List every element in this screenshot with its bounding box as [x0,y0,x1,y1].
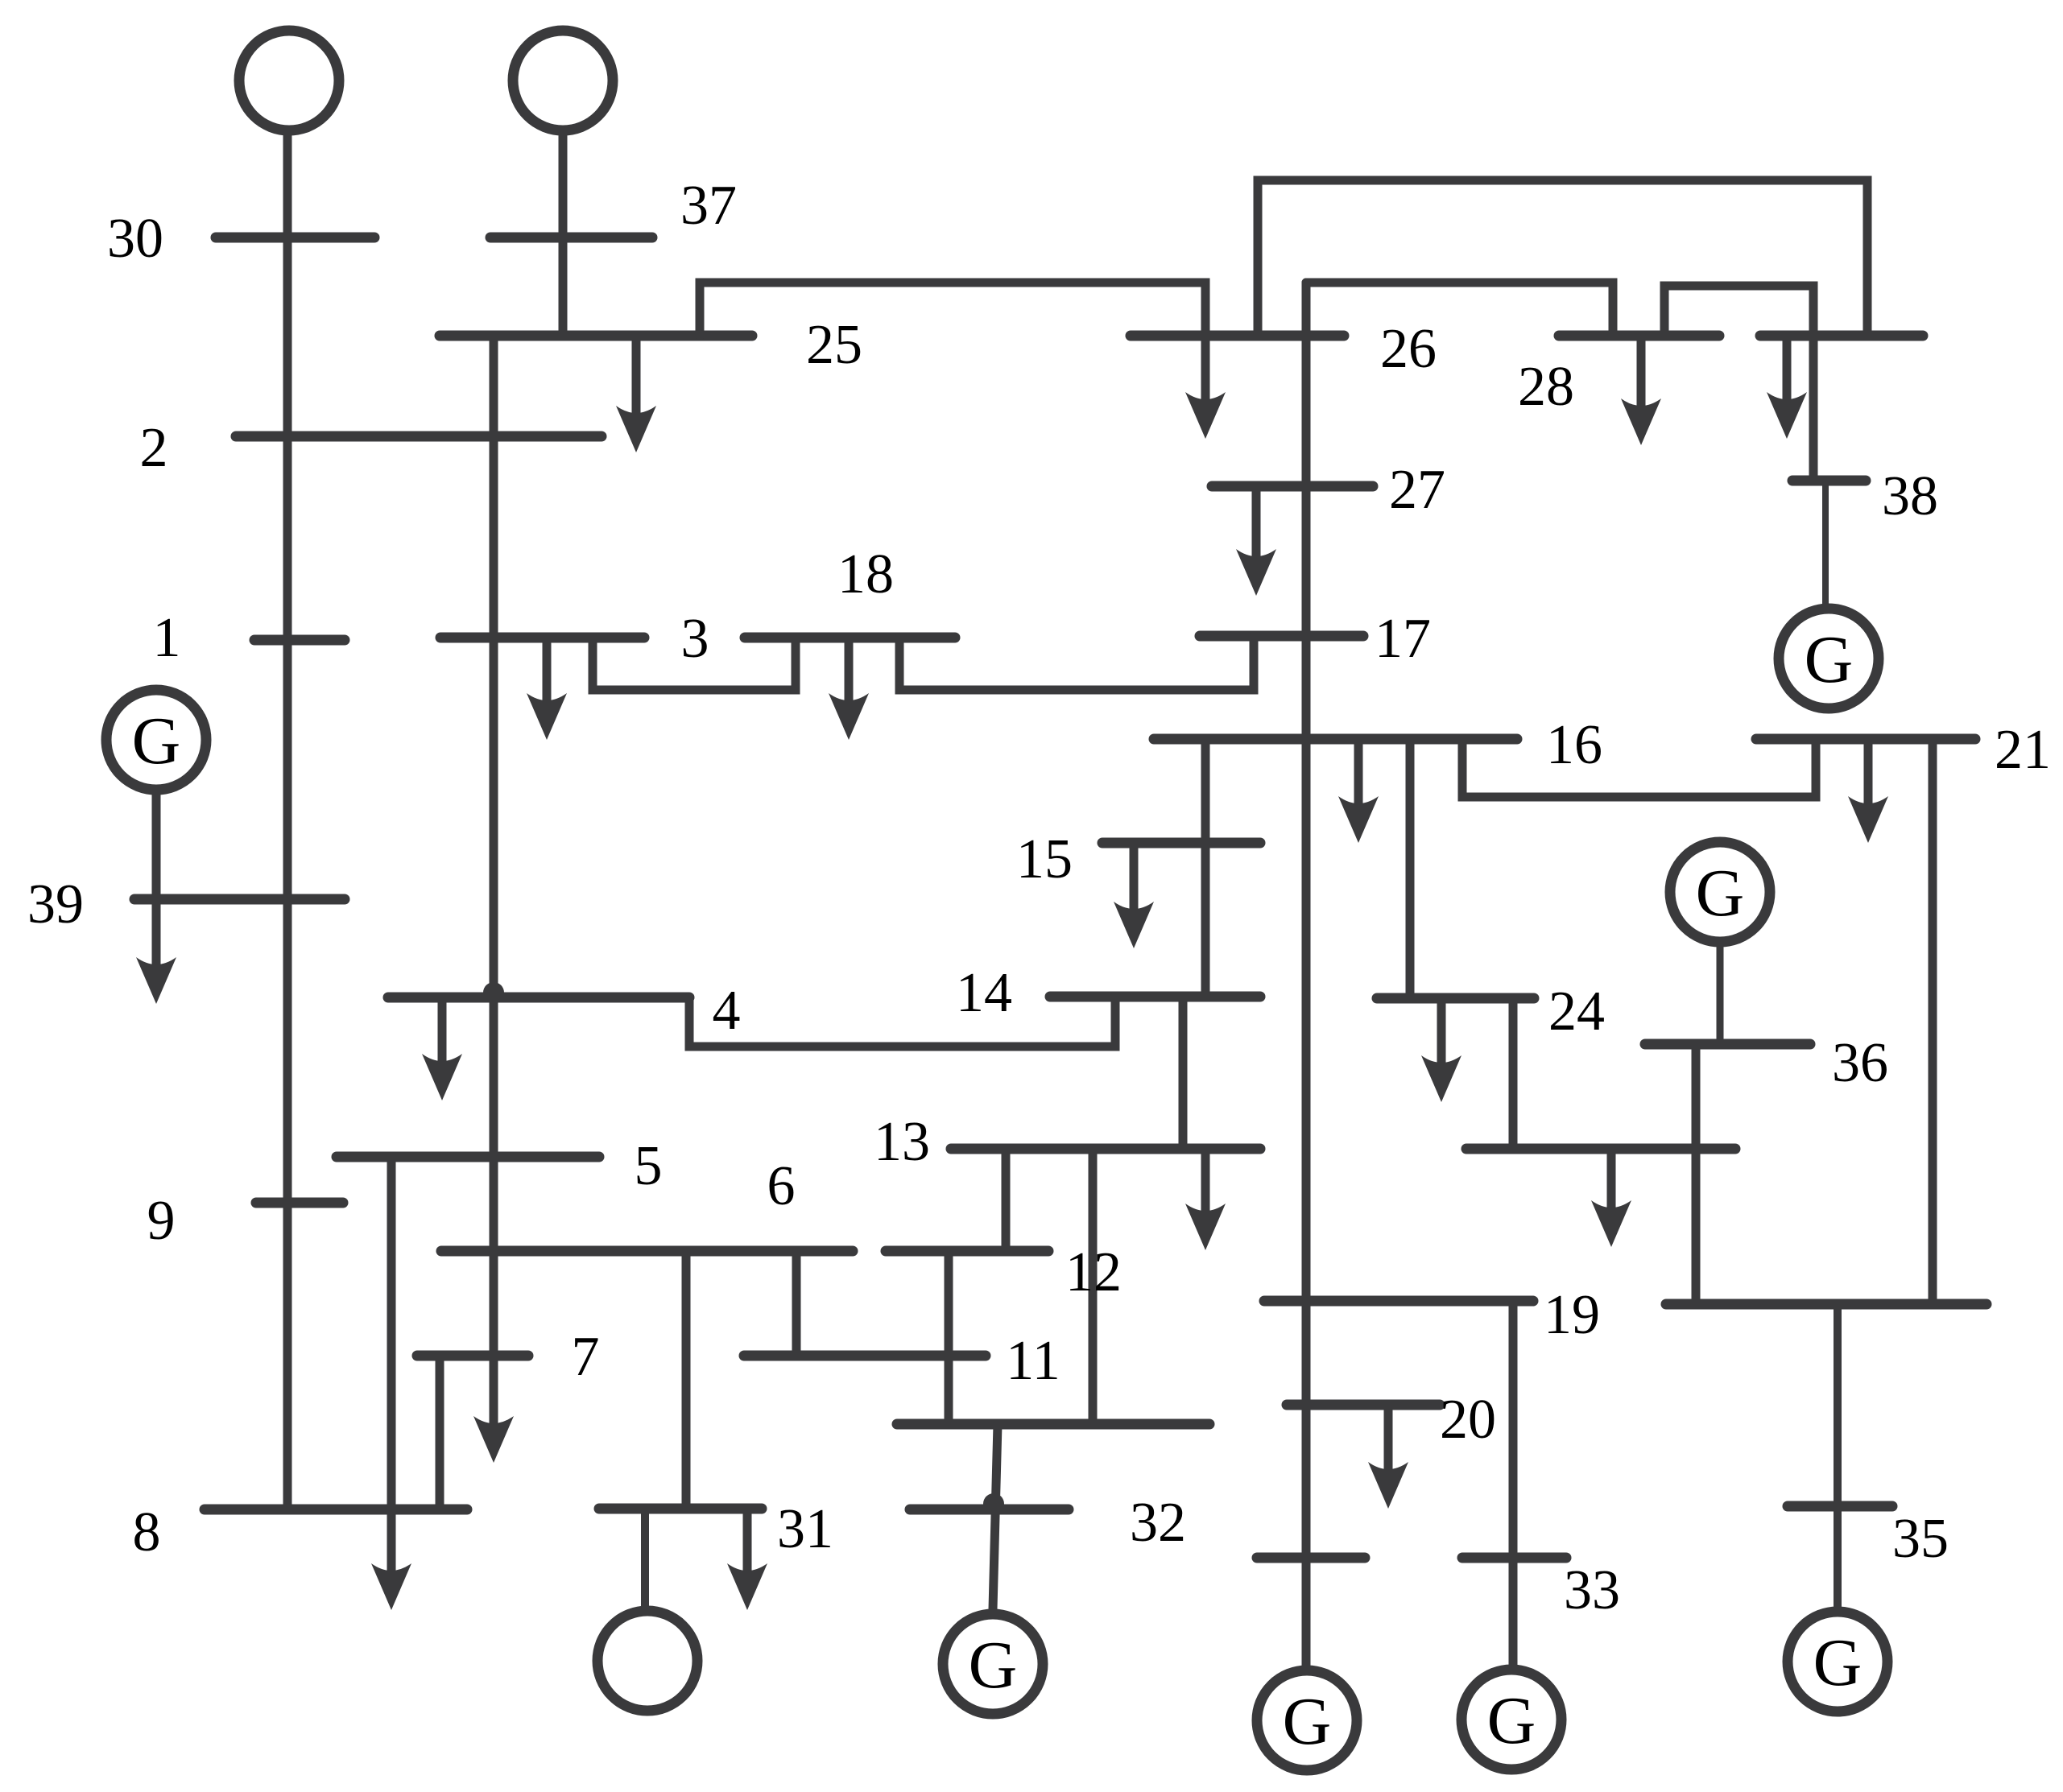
bus 2 [236,431,602,442]
svg-text:8: 8 [133,1501,161,1563]
wire: line 10-32 to generator 32 [993,1424,998,1609]
svg-text:38: 38 [1882,465,1938,527]
wire: vertical from bus 25 through buses 2,3,4,5,6,7 ending in load arrow below bus 7 [490,336,498,1434]
svg-text:28: 28 [1518,356,1574,418]
wire: stem bus 38 to generator 38 [1822,481,1829,605]
svg-text:G: G [1805,622,1854,697]
bus 23 [1466,1144,1735,1154]
bus 14 [1050,992,1260,1002]
wire: line 16-24 [1406,739,1415,998]
svg-text:7: 7 [572,1326,600,1388]
bus 18 [745,633,955,643]
bus 15 [1102,838,1260,849]
bus 3 [440,633,644,643]
wire: jog line 18-17 [899,636,1254,690]
svg-text:12: 12 [1065,1241,1122,1303]
svg-text:30: 30 [107,208,163,270]
load arrow at bus 24 [1437,998,1446,1073]
load arrow at bus 26 [1201,336,1210,410]
wire: line 24-23 [1509,998,1518,1149]
bus 11 [744,1351,986,1361]
wire: line 7-8 [436,1356,444,1509]
bus 21 [1756,734,1975,745]
svg-text:21: 21 [1995,719,2051,781]
svg-text:G: G [1283,1684,1332,1759]
svg-text:18: 18 [837,543,894,605]
svg-text:3: 3 [681,608,709,670]
svg-text:6: 6 [767,1155,796,1217]
generator G34 [1257,1670,1357,1770]
svg-text:25: 25 [806,314,862,376]
junction dot on bus 32 [983,1493,1004,1514]
bus 32 [910,1505,1069,1515]
bus 36 [1645,1039,1810,1050]
wire: line 19-33 to generator 33 [1509,1301,1518,1666]
load arrow at bus 4 [438,997,447,1071]
load arrow at bus 21 [1864,739,1873,814]
svg-text:G: G [1487,1683,1536,1758]
generator G38 [1779,609,1879,708]
wire: line 4-14 (down, across, up) [689,997,1115,1047]
wire: line 14-13 [1179,997,1188,1149]
wire: line 21-22 [1929,739,1937,1304]
wire: stem generator to bus 39 and load arrow below [152,793,161,975]
load arrow at bus 27 [1252,486,1261,567]
bus 6 [441,1246,853,1257]
wire: stem bus 31 to generator 31 [641,1509,649,1607]
svg-text:39: 39 [27,873,84,935]
wire: line 25-26 (up step, across, down to bus 26) [700,283,1205,336]
load arrow at bus 3 [543,638,552,711]
load arrow at bus 13 [1201,1149,1210,1221]
load arrow at bus 20 [1384,1405,1393,1480]
wire: line 6-31 [682,1251,691,1509]
junction dot on bus 4 [483,982,504,1003]
bus 17 [1200,631,1363,642]
bus 12 [886,1246,1048,1257]
wire: line 5-8 with load arrow below bus 8 [387,1157,396,1581]
bus 8 [205,1505,467,1515]
bus 13 [951,1144,1260,1154]
generator G32 [943,1614,1043,1714]
load arrow at bus 23 [1607,1149,1616,1218]
svg-text:36: 36 [1832,1032,1888,1094]
generator G36 [1670,842,1770,942]
svg-text:24: 24 [1548,981,1605,1043]
svg-text:5: 5 [635,1135,663,1197]
wire: vertical from second generator to bus 25 [559,134,568,336]
load arrow at bus 15 [1130,843,1139,919]
svg-text:31: 31 [777,1498,833,1560]
svg-text:G: G [1813,1625,1862,1700]
svg-text:G: G [132,704,181,778]
svg-text:35: 35 [1892,1508,1949,1570]
bus 34 [1257,1553,1365,1563]
wire: line 36-23-22 [1692,1044,1701,1304]
wire: jog line 16-21 [1462,739,1816,797]
svg-text:20: 20 [1440,1389,1496,1451]
generator circle (machine for bus 37) [513,31,613,130]
wire: line 13-10 [1089,1149,1098,1424]
wire: top bridge line 26-29 [1258,180,1867,336]
load arrow at bus 31 [743,1509,752,1581]
generator G33 [1461,1670,1561,1769]
load arrow at bus 29 [1783,336,1792,410]
generator circle 31 [597,1611,697,1711]
wire: line 6-11 [792,1251,801,1356]
wire: vertical 16 through 15 to 14 [1201,739,1210,995]
svg-text:13: 13 [874,1111,930,1173]
svg-text:16: 16 [1546,714,1602,776]
wire: line 13-12 [1002,1149,1011,1251]
bus 30 [216,233,374,243]
svg-text:26: 26 [1380,318,1437,380]
svg-text:37: 37 [680,175,737,237]
bus 26 [1131,331,1344,341]
wire: jog line 3-18 [593,638,796,690]
bus 10 [897,1419,1209,1430]
svg-text:17: 17 [1375,608,1431,670]
svg-text:2: 2 [140,417,168,479]
svg-text:15: 15 [1016,828,1073,890]
bus 28 [1559,331,1719,341]
bus 29 [1760,331,1923,341]
generator circle (top-left machine for bus 30) [239,31,339,130]
wire: long vertical from top-left generator through buses 30,2,1,39,9 to bus 8 [283,134,292,1509]
load arrow at bus 28 [1637,336,1646,416]
generator G35 [1788,1612,1887,1711]
wire: long chain vertical through buses 26,27,17,16,19,20,34 to generator 34 [1302,283,1311,1667]
bus 4 [388,993,689,1003]
wire: line 12-11-10 [945,1251,953,1424]
bus 19 [1264,1296,1533,1307]
load arrow at bus 18 [845,638,854,711]
svg-text:32: 32 [1130,1492,1186,1554]
svg-text:11: 11 [1006,1330,1060,1392]
bus 7 [417,1351,528,1361]
bus 5 [337,1152,599,1162]
bus 25 [440,331,752,341]
bus 9 [256,1198,343,1208]
wire: line 28-29 continuing down to bus 38 [1664,286,1813,481]
bus 1 [254,635,345,646]
svg-text:4: 4 [713,980,741,1042]
svg-text:19: 19 [1544,1284,1600,1346]
bus 22 [1666,1299,1987,1310]
bus 39 [134,894,345,905]
load arrow at bus 25 [632,336,641,425]
bus 35 [1788,1501,1892,1512]
bus 16 [1154,734,1517,745]
wire: line 22-35 to generator 35 [1834,1304,1842,1608]
svg-text:1: 1 [153,607,181,669]
bus 20 [1287,1400,1440,1410]
bus 31 [599,1504,762,1514]
svg-text:G: G [1696,856,1745,931]
svg-text:G: G [969,1628,1018,1703]
generator G39 [106,690,206,790]
bus 24 [1377,993,1534,1004]
svg-text:27: 27 [1389,459,1445,521]
svg-text:9: 9 [147,1190,176,1252]
svg-text:14: 14 [956,962,1012,1024]
svg-text:33: 33 [1564,1559,1620,1621]
wire: stem generator 36 to bus 36 [1717,945,1724,1044]
bus 33 [1462,1553,1566,1563]
load arrow at bus 16 [1354,739,1363,814]
bus 38 [1792,476,1866,486]
wire: line 26-28 [1306,283,1613,336]
bus 37 [490,233,652,243]
bus 27 [1212,481,1373,492]
